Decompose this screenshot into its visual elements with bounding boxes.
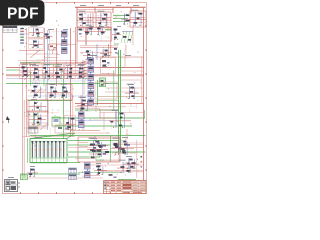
svg-text:PDF: PDF — [7, 5, 39, 22]
